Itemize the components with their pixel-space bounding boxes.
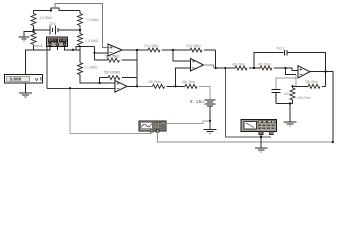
wire pot terminal down to input row bbox=[46, 47, 48, 89]
ground (below DMM) bbox=[255, 148, 267, 152]
svg-text:1 0.05kΩ: 1 0.05kΩ bbox=[85, 66, 98, 70]
junction scope tap bbox=[69, 87, 71, 89]
svg-text:1 0.05kΩ: 1 0.05kΩ bbox=[86, 18, 99, 22]
junction output to bottom wire bbox=[332, 141, 334, 143]
resistor R6 (series, row y50) bbox=[173, 48, 216, 52]
wire scope right side to battery node bbox=[166, 121, 210, 124]
wire pot left terminal to voltmeter line bbox=[34, 47, 51, 51]
junction right leg / battery row bbox=[79, 29, 81, 31]
wire DMM left terminal to ground bbox=[260, 135, 262, 148]
wire op-amp U3 inputs bbox=[286, 68, 298, 71]
wire node drop to U3 lower input bbox=[286, 68, 296, 75]
ground (below R10) bbox=[284, 122, 297, 126]
resistor R10 (to ground) bbox=[290, 86, 295, 103]
op-amp U2 bbox=[191, 58, 204, 71]
wire gray feedback to U3 bbox=[293, 75, 297, 87]
svg-text:5k 0.05kΩ: 5k 0.05kΩ bbox=[105, 54, 120, 58]
resistor R7 bbox=[235, 66, 254, 70]
svg-text:42k Ohm: 42k Ohm bbox=[232, 62, 245, 66]
capacitor C2 (to ground) bbox=[276, 78, 296, 89]
wire battery to ground bbox=[209, 106, 211, 129]
wire pot right terminal to node bbox=[65, 47, 74, 50]
svg-text:42k Ohm: 42k Ohm bbox=[305, 80, 318, 84]
junction U3 input node bbox=[284, 67, 286, 69]
junction battery/scope tap bbox=[209, 120, 211, 122]
svg-text:100n: 100n bbox=[284, 92, 291, 96]
svg-text:Key=A: Key=A bbox=[33, 44, 43, 48]
multimeter XMM1 icon bbox=[241, 120, 277, 135]
wire to battery V2 bbox=[199, 86, 210, 100]
wire row y68 bbox=[216, 67, 236, 69]
svg-text:22 0.05kΩ: 22 0.05kΩ bbox=[144, 44, 159, 48]
svg-text:750 0.05kΩ: 750 0.05kΩ bbox=[104, 70, 121, 74]
wire op-amp U2 bottom input from row y86 bbox=[176, 68, 191, 86]
svg-text:42k Ohm: 42k Ohm bbox=[298, 96, 311, 100]
wire jog from node to 5k row bbox=[94, 46, 96, 60]
svg-text:1 0.05kΩ: 1 0.05kΩ bbox=[86, 39, 99, 43]
wire voltmeter to ground bbox=[25, 83, 27, 93]
wire C1 right plate to U3 output node bbox=[288, 53, 326, 72]
junction DMM leg bbox=[260, 136, 262, 138]
resistor R8 bbox=[254, 66, 286, 70]
wire top loop bbox=[34, 8, 81, 10]
wire scope left input bbox=[70, 88, 152, 133]
ground (below battery V2) bbox=[204, 129, 217, 133]
junction ground tap bbox=[32, 31, 34, 33]
svg-text:12 V: 12 V bbox=[49, 22, 56, 26]
wire node to op-amp U1 inverting input bbox=[73, 46, 108, 52]
svg-text:42k Ohm: 42k Ohm bbox=[148, 80, 161, 84]
wire U5 bottom input row y88.3 bbox=[47, 87, 115, 89]
capacitor C1 bbox=[284, 50, 287, 56]
svg-text:3.808: 3.808 bbox=[10, 77, 22, 82]
node A (pot wiper to U1) bbox=[72, 49, 74, 51]
wire gray routing from pot top to op-amp U1 bbox=[55, 4, 108, 48]
resistor R2 (top-right vertical) bbox=[78, 11, 83, 31]
wire feedback vertical x215 bbox=[215, 50, 217, 68]
resistor R3 (lower-left vertical) bbox=[26, 30, 37, 75]
svg-text:0. 15u: 0. 15u bbox=[190, 99, 204, 104]
wire U5 output bbox=[127, 85, 137, 87]
wire U2 output bbox=[204, 65, 214, 68]
wire U3 output to feedback node bbox=[325, 72, 327, 87]
svg-text:42k Ohm: 42k Ohm bbox=[258, 62, 271, 66]
voltmeter M1 bbox=[5, 75, 43, 84]
wire node to DMM vertical x225.5 bbox=[225, 68, 271, 137]
junction U3 output node bbox=[324, 71, 326, 73]
junction left leg / battery row bbox=[32, 29, 34, 31]
wire scope right terminal to long bottom wire bbox=[158, 132, 333, 142]
svg-text:22 0.05kΩ: 22 0.05kΩ bbox=[186, 44, 201, 48]
wire 750 row drop to input node bbox=[99, 78, 101, 83]
resistor R9 (feedback row y86) bbox=[293, 84, 326, 88]
resistor R12 (vertical x80) bbox=[78, 50, 115, 83]
resistor R13 (750 row y77.6) bbox=[100, 76, 137, 80]
junction C1 branch bbox=[253, 67, 255, 69]
svg-text:5n2.2: 5n2.2 bbox=[277, 47, 285, 51]
resistor R15 bbox=[176, 84, 198, 88]
resistor R1 (top-left vertical) bbox=[31, 11, 36, 31]
svg-text:42k Ohm: 42k Ohm bbox=[182, 80, 195, 84]
oscilloscope XSC1 icon bbox=[139, 121, 166, 132]
resistor R11 (5k row y60.2) bbox=[95, 58, 138, 62]
ground (below voltmeter) bbox=[19, 93, 32, 97]
op-amp U5 bbox=[115, 81, 127, 93]
junction DMM tap bbox=[224, 67, 226, 69]
ground (left of battery) bbox=[19, 32, 34, 41]
battery V2 bbox=[205, 100, 216, 106]
wire row y86.3 (to battery) bbox=[137, 85, 153, 87]
wire node to op-amp U2 top input bbox=[173, 50, 191, 61]
potentiometer block P1 bbox=[47, 37, 68, 47]
junction U2 output node bbox=[214, 67, 216, 69]
resistor R5 (series, row y50) bbox=[137, 48, 173, 52]
wire U1 output bbox=[122, 49, 137, 51]
junction C2/R10 common bbox=[289, 102, 291, 104]
op-amp U3 bbox=[298, 66, 310, 78]
resistor R4 (lower-right vertical) bbox=[73, 30, 83, 50]
battery V1 12V bbox=[34, 26, 81, 35]
junction U5 input node bbox=[99, 82, 101, 84]
junction R9/R10 feedback node bbox=[291, 85, 293, 87]
junction U1 output bbox=[136, 49, 138, 51]
junction pot-top tap bbox=[50, 9, 52, 11]
junction U5 output node bbox=[136, 85, 138, 87]
wire capacitor feedback row bbox=[254, 53, 284, 68]
wire vertical x137 bbox=[136, 50, 138, 86]
wire cap/res common to ground bbox=[276, 103, 293, 121]
wire pot middle terminal stub bbox=[56, 47, 58, 51]
resistor R14 bbox=[153, 84, 176, 88]
junction series row to U2 bbox=[172, 49, 174, 51]
op-amp U1 bbox=[108, 44, 122, 56]
svg-text:1 0.05kΩ: 1 0.05kΩ bbox=[40, 16, 53, 20]
wire U3 output bbox=[310, 72, 333, 142]
junction row y86 to U2 input bbox=[174, 85, 176, 87]
junction U1 input branch bbox=[94, 52, 96, 54]
